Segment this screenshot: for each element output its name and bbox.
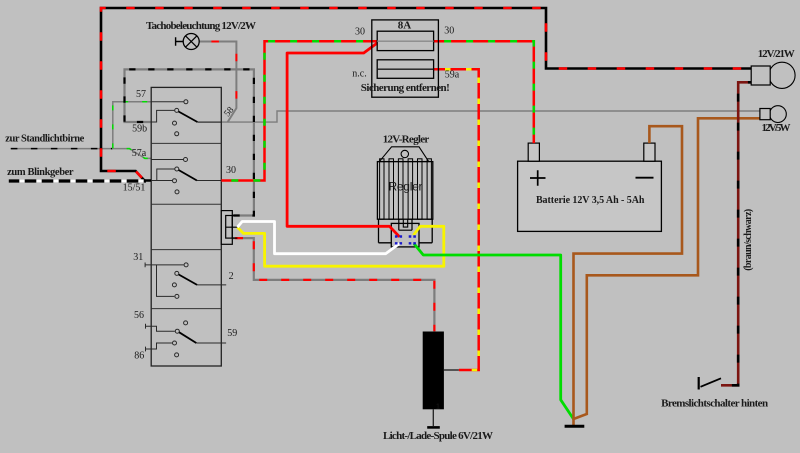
svg-text:31: 31	[133, 252, 143, 263]
svg-text:Tachobeleuchtung 12V/2W: Tachobeleuchtung 12V/2W	[146, 20, 256, 32]
svg-text:12V/21W: 12V/21W	[758, 48, 795, 60]
svg-text:86: 86	[134, 351, 144, 362]
svg-text:Regler: Regler	[389, 180, 423, 194]
svg-text:57a: 57a	[132, 148, 147, 159]
svg-text:Bremslichtschalter hinten: Bremslichtschalter hinten	[661, 397, 768, 409]
svg-text:Sicherung entfernen!: Sicherung entfernen!	[361, 82, 450, 94]
svg-text:30: 30	[226, 165, 236, 176]
svg-text:Batterie 12V 3,5 Ah - 5Ah: Batterie 12V 3,5 Ah - 5Ah	[536, 195, 645, 206]
svg-text:57: 57	[136, 89, 146, 100]
svg-text:1: 1	[436, 402, 440, 411]
svg-text:56: 56	[134, 310, 144, 321]
svg-text:12V/5W: 12V/5W	[762, 122, 791, 134]
svg-text:Licht-/Lade-Spule 6V/21W: Licht-/Lade-Spule 6V/21W	[383, 430, 493, 442]
svg-text:zur Standlichtbirne: zur Standlichtbirne	[5, 133, 84, 144]
svg-text:zum Blinkgeber: zum Blinkgeber	[7, 167, 74, 178]
svg-text:(braun/schwarz): (braun/schwarz)	[743, 209, 754, 271]
svg-text:n.c.: n.c.	[352, 69, 366, 80]
svg-text:59b: 59b	[132, 124, 147, 135]
svg-text:12V-Regler: 12V-Regler	[383, 133, 430, 145]
svg-text:59: 59	[227, 328, 237, 339]
svg-text:2: 2	[229, 271, 234, 282]
svg-text:30: 30	[355, 27, 365, 38]
svg-text:15/51: 15/51	[123, 183, 146, 194]
svg-text:59a: 59a	[445, 70, 460, 81]
svg-text:30: 30	[444, 26, 454, 37]
svg-text:8A: 8A	[398, 20, 412, 32]
